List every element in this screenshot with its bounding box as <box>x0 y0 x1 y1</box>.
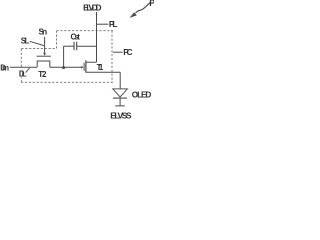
svg-text:PL: PL <box>109 19 118 29</box>
svg-text:Dm: Dm <box>0 64 9 73</box>
svg-text:DL: DL <box>19 70 27 79</box>
svg-text:SL: SL <box>21 36 30 45</box>
svg-text:ELVSS: ELVSS <box>110 111 132 121</box>
svg-text:P: P <box>149 0 154 8</box>
svg-text:OLED: OLED <box>132 90 152 99</box>
svg-text:T2: T2 <box>38 70 47 79</box>
svg-text:Cst: Cst <box>71 32 81 41</box>
svg-text:PC: PC <box>123 47 132 57</box>
svg-text:Sn: Sn <box>39 27 48 36</box>
svg-text:T1: T1 <box>97 63 104 72</box>
svg-text:ELVDD: ELVDD <box>83 2 101 12</box>
